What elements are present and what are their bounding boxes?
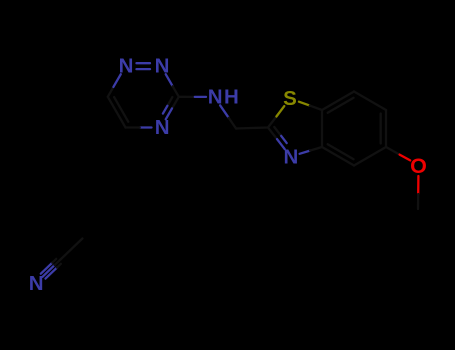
bond C3=N4 (triazine)	[163, 97, 179, 120]
bond C5=C6 (triazine)	[108, 97, 129, 128]
atom label S1 thiazole	[283, 87, 297, 110]
atom label N nitrile	[29, 272, 44, 295]
atom label N1	[119, 55, 134, 78]
svg-text:NH: NH	[208, 85, 240, 108]
svg-text:N: N	[119, 55, 134, 78]
bond CH2-C2 linker	[236, 128, 268, 129]
bond C5-O (methoxy)	[386, 147, 410, 160]
bond N-CH2 linker	[220, 105, 236, 128]
bond N3-C3a (thiazole)	[300, 147, 322, 154]
bond C7a-C7 (benzo)	[322, 92, 354, 113]
atom label N3 thiazole	[283, 145, 298, 168]
bond C5-C4 (benzo)	[354, 147, 386, 166]
bond C3-N amine	[179, 96, 206, 98]
bond C6-N1 (triazine)	[108, 74, 121, 97]
atom label O methoxy	[410, 154, 427, 178]
svg-text:N: N	[283, 145, 298, 168]
bond N1=N2 (triazine)	[137, 63, 151, 69]
bond N4-C5 (triazine)	[126, 126, 152, 128]
bond N2-C3 (triazine)	[166, 74, 179, 97]
bond C-CH3 acetonitrile	[60, 239, 82, 261]
bond O-CH3 (methoxy)	[417, 176, 420, 209]
bond C4-C3a (benzo)	[322, 144, 354, 165]
atom label N4	[155, 116, 170, 139]
bond C2=N3 (thiazole)	[268, 127, 287, 149]
atom label N2	[155, 55, 170, 78]
bond N#C nitrile (triple)	[41, 259, 61, 279]
svg-text:S: S	[283, 87, 297, 110]
atom label NH amine	[208, 85, 240, 108]
bond C3a-C7a (ring fusion)	[321, 110, 323, 147]
svg-text:N: N	[155, 116, 170, 139]
bond S1-C7a (thiazole)	[299, 102, 322, 110]
bond C6-C5 (benzo)	[381, 110, 386, 147]
svg-text:N: N	[29, 272, 44, 295]
bond C2-S1 (thiazole)	[268, 106, 284, 127]
svg-text:O: O	[410, 154, 427, 178]
svg-text:N: N	[155, 55, 170, 78]
bond C7-C6 (benzo)	[354, 92, 386, 111]
